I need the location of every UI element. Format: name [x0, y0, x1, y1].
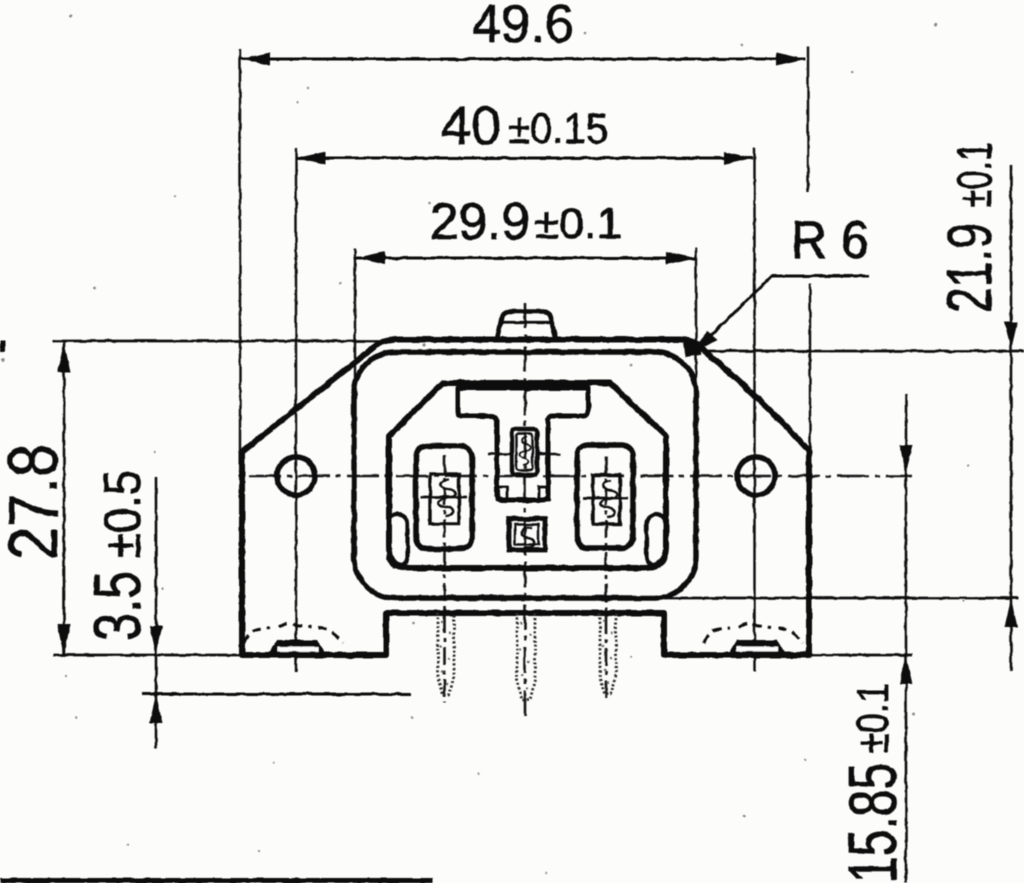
svg-text:49.6: 49.6 [472, 0, 574, 54]
foot left dashed hook [244, 623, 343, 643]
T-slot bottom notch left [497, 487, 507, 500]
vertical main centerline [524, 303, 527, 717]
extension line flange-bottom right for 15.85 [810, 654, 912, 657]
edge artifact left tick [0, 341, 5, 352]
svg-text:3.5: 3.5 [80, 571, 154, 641]
ground pin inner [517, 434, 533, 471]
bezel outline [354, 352, 696, 598]
svg-text:±0.5: ±0.5 [94, 470, 152, 558]
left contact crosshair [421, 496, 467, 499]
foot right dashed hook [704, 623, 803, 643]
extension line right 49.6 [808, 47, 810, 452]
corner keying slot left [389, 514, 408, 566]
extension line flange-bottom left for 27.8 [53, 654, 242, 657]
foot right solid [728, 640, 786, 655]
recess outline [389, 383, 666, 568]
solder pin left [438, 613, 454, 695]
dimension line 49.6 [241, 58, 805, 61]
ground pin tick marks [488, 453, 561, 456]
svg-text:±0.1: ±0.1 [534, 200, 622, 248]
mounting hole right [737, 457, 775, 495]
flange outline [242, 340, 809, 656]
extension line body-bottom for 21.9 [660, 597, 1018, 600]
leader R6 [696, 276, 869, 350]
left contact slot inner [430, 474, 459, 524]
extension line left 49.6 [239, 49, 241, 452]
mounting hole left [277, 457, 315, 495]
corner keying slot right [647, 514, 666, 566]
dimension line 27.8 [63, 341, 66, 655]
left contact hatch [439, 480, 456, 516]
ground T-slot [458, 388, 588, 500]
svg-text:15.85: 15.85 [835, 763, 911, 883]
left contact centerline [443, 455, 446, 703]
svg-text:21.9: 21.9 [935, 223, 1005, 313]
foot right white band [737, 647, 778, 652]
center rivet inner [515, 525, 539, 545]
solder pin right [600, 613, 616, 694]
edge artifact bottom-left strip [0, 878, 433, 883]
ground pin outer [512, 429, 537, 475]
extension line right 29.9 [695, 248, 697, 430]
svg-text:29.9: 29.9 [430, 193, 530, 251]
top tab [497, 312, 556, 340]
dimension line 3.5 [155, 477, 158, 748]
foot left solid [268, 640, 326, 655]
reference line 3.5 lower [142, 693, 411, 696]
extension line bezel-top for 21.9 [688, 350, 1024, 353]
foot left white band [277, 647, 318, 652]
solder pin center [517, 613, 535, 700]
hole centerline / extension right 40 [753, 148, 755, 672]
right contact centerline [605, 456, 608, 701]
dimension line 29.9 [356, 257, 695, 260]
right contact slot outer [577, 445, 633, 548]
ground pin hatch [520, 437, 531, 465]
svg-text:±0.1: ±0.1 [949, 142, 1002, 208]
dimension line 21.9 [1010, 165, 1013, 671]
svg-text:27.8: 27.8 [0, 444, 72, 560]
horizontal main centerline [249, 475, 912, 478]
svg-text:±0.15: ±0.15 [508, 105, 608, 153]
svg-text:±0.1: ±0.1 [847, 683, 898, 753]
dimension line 15.85 [905, 394, 908, 883]
T-slot bottom notch right [539, 487, 549, 500]
center rivet outer [509, 519, 545, 550]
svg-text:40: 40 [441, 96, 501, 156]
dimension line 40 [297, 157, 753, 160]
hole centerline / extension left 40 [295, 148, 297, 672]
top tab inner line [499, 321, 552, 324]
right contact slot inner [593, 475, 620, 524]
left contact slot outer [416, 446, 472, 549]
extension line flange-top left for 27.8 [53, 340, 392, 343]
right contact crosshair [583, 497, 628, 500]
svg-text:R 6: R 6 [791, 211, 869, 270]
center rivet squiggle [522, 528, 534, 548]
extension line left 29.9 [354, 248, 356, 430]
right contact hatch [601, 481, 618, 517]
